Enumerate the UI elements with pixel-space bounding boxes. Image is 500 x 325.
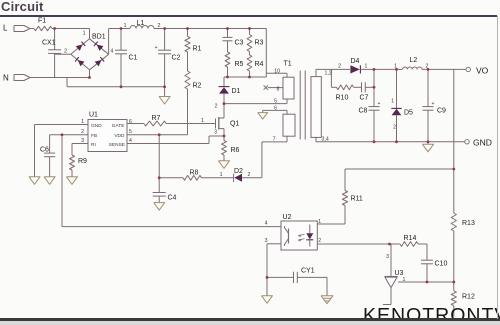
svg-text:7: 7 (273, 137, 276, 143)
svg-text:R6: R6 (231, 147, 240, 154)
svg-text:C7: C7 (360, 95, 369, 102)
svg-text:1: 1 (201, 118, 204, 124)
svg-text:R9: R9 (78, 158, 87, 165)
svg-text:4: 4 (265, 221, 268, 227)
svg-text:1: 1 (318, 219, 321, 225)
svg-text:1: 1 (391, 99, 394, 105)
svg-text:N: N (3, 74, 9, 83)
svg-text:C1: C1 (129, 55, 138, 62)
svg-text:RI: RI (91, 142, 96, 148)
svg-text:R13: R13 (462, 220, 475, 227)
svg-text:GND: GND (473, 138, 492, 148)
svg-text:R3: R3 (255, 39, 264, 46)
svg-text:2: 2 (248, 172, 251, 178)
svg-text:FB: FB (91, 133, 97, 139)
svg-text:R8: R8 (190, 170, 199, 177)
svg-text:6: 6 (129, 119, 132, 125)
svg-text:R11: R11 (351, 196, 363, 203)
svg-text:L1: L1 (137, 20, 145, 27)
svg-text:3,4: 3,4 (322, 137, 329, 143)
svg-text:C4: C4 (168, 195, 177, 202)
svg-text:D2: D2 (234, 168, 243, 175)
svg-text:1: 1 (220, 172, 223, 178)
svg-text:2: 2 (81, 129, 84, 135)
svg-text:2: 2 (158, 23, 161, 29)
svg-text:R5: R5 (235, 61, 244, 68)
svg-text:D5: D5 (404, 110, 413, 117)
svg-text:VO: VO (476, 66, 489, 76)
svg-text:T1: T1 (284, 61, 292, 68)
svg-text:1: 1 (81, 119, 84, 125)
svg-text:CX1: CX1 (42, 40, 56, 47)
svg-text:5: 5 (129, 129, 132, 135)
svg-text:R2: R2 (193, 83, 202, 90)
svg-text:6: 6 (274, 106, 277, 112)
svg-text:R1: R1 (193, 46, 202, 53)
svg-text:3: 3 (81, 138, 84, 144)
svg-text:2: 2 (318, 238, 321, 244)
svg-text:4: 4 (111, 49, 114, 55)
svg-text:+: + (378, 101, 381, 107)
svg-text:C3: C3 (235, 39, 244, 46)
svg-text:Q1: Q1 (230, 121, 239, 128)
svg-text:1: 1 (365, 63, 368, 69)
svg-text:R4: R4 (255, 61, 264, 68)
svg-text:1: 1 (403, 277, 406, 283)
svg-text:SENSE: SENSE (109, 142, 125, 148)
svg-text:L2: L2 (410, 57, 418, 64)
svg-text:2: 2 (393, 125, 396, 131)
svg-text:5: 5 (274, 99, 277, 105)
svg-text:GND: GND (91, 123, 102, 129)
svg-text:1: 1 (394, 63, 397, 69)
svg-text:R14: R14 (404, 235, 417, 242)
svg-text:2: 2 (64, 49, 67, 55)
svg-text:CY1: CY1 (301, 268, 315, 275)
svg-text:U2: U2 (283, 214, 292, 221)
svg-text:10: 10 (274, 69, 280, 75)
svg-text:C6: C6 (40, 147, 49, 154)
svg-text:3: 3 (386, 254, 389, 260)
svg-text:D4: D4 (351, 58, 360, 65)
svg-text:R7: R7 (152, 115, 161, 122)
svg-text:3: 3 (265, 238, 268, 244)
svg-text:C8: C8 (359, 108, 368, 115)
svg-text:2: 2 (426, 63, 429, 69)
svg-text:F1: F1 (38, 18, 46, 25)
svg-text:1,2: 1,2 (325, 71, 332, 77)
svg-text:U1: U1 (89, 112, 98, 119)
svg-text:L: L (3, 24, 8, 33)
svg-text:C2: C2 (172, 55, 181, 62)
svg-text:C10: C10 (435, 261, 448, 268)
svg-text:8: 8 (277, 87, 280, 93)
svg-text:3: 3 (214, 130, 217, 136)
svg-text:2: 2 (215, 104, 218, 110)
svg-text:1: 1 (83, 31, 86, 37)
svg-text:C9: C9 (437, 108, 446, 115)
svg-text:+: + (432, 101, 435, 107)
svg-text:R10: R10 (336, 95, 349, 102)
svg-text:2: 2 (338, 63, 341, 69)
svg-text:R12: R12 (462, 294, 475, 301)
svg-text:D1: D1 (232, 88, 241, 95)
svg-text:4: 4 (129, 138, 132, 144)
svg-text:GATE: GATE (112, 123, 125, 129)
svg-text:+: + (155, 45, 158, 51)
svg-text:1: 1 (124, 23, 127, 29)
svg-text:BD1: BD1 (92, 34, 106, 41)
svg-text:VDD: VDD (114, 133, 125, 139)
